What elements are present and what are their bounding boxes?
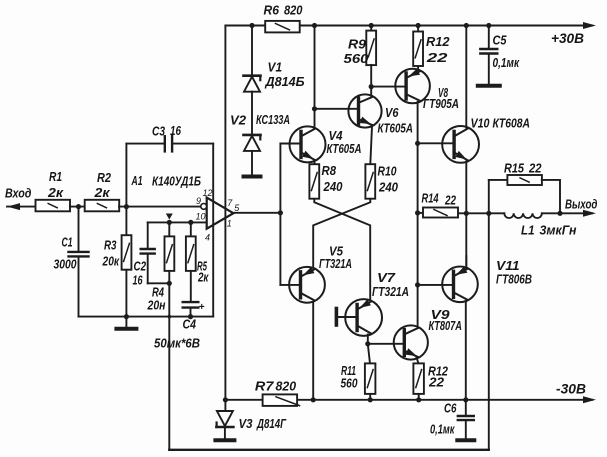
svg-text:22: 22 bbox=[444, 194, 456, 208]
svg-text:0,1мк: 0,1мк bbox=[493, 56, 520, 70]
wire output row bbox=[458, 212, 504, 214]
svg-text:R9: R9 bbox=[348, 38, 366, 52]
svg-text:КТ605А: КТ605А bbox=[327, 142, 362, 156]
svg-text:2к: 2к bbox=[197, 271, 209, 285]
ground symbol bbox=[125, 317, 127, 327]
svg-text:7: 7 bbox=[227, 198, 233, 208]
svg-text:V7: V7 bbox=[377, 271, 396, 285]
svg-text:560: 560 bbox=[341, 377, 358, 391]
wire V9 base bbox=[368, 343, 402, 345]
resistor R9 560 bbox=[370, 26, 372, 31]
wire V9 emitter to R12 bbox=[417, 358, 419, 364]
capacitor C6 0,1мк bbox=[465, 400, 467, 415]
wire V7 to R11 bbox=[368, 344, 370, 364]
inductor L1 3мкГн bbox=[504, 213, 542, 218]
zener V2 КС133А bbox=[244, 134, 261, 137]
svg-text:16: 16 bbox=[170, 124, 182, 138]
node C4 bottom bbox=[188, 314, 193, 319]
resistor R11 560 bbox=[365, 363, 376, 394]
svg-text:22: 22 bbox=[425, 51, 447, 65]
transistor V9 КТ807А npn bbox=[394, 325, 428, 359]
node R12 top bbox=[416, 23, 421, 28]
node V10 collector rail bbox=[464, 23, 469, 28]
wire output frame right column bbox=[488, 180, 490, 450]
svg-text:A1: A1 bbox=[131, 174, 143, 188]
resistor R12 22 (lower) bbox=[413, 363, 424, 394]
node V3 top bbox=[223, 397, 228, 402]
wire V10/V11 emitter junction bbox=[465, 213, 467, 268]
node R14 left bbox=[415, 210, 420, 215]
resistor R2 2к bbox=[85, 200, 120, 212]
Вход input arrow bbox=[7, 203, 20, 210]
wire V7 collector bbox=[367, 335, 369, 344]
svg-text:V6: V6 bbox=[385, 106, 399, 120]
transistor V11 ГТ806В pnp bbox=[442, 267, 478, 303]
svg-text:3мкГн: 3мкГн bbox=[540, 224, 577, 238]
svg-text:КТ605А: КТ605А bbox=[377, 122, 413, 136]
resistor R10 240 bbox=[365, 164, 375, 199]
wire V11 emitter up bbox=[465, 256, 467, 268]
wire V4 collector bbox=[314, 26, 316, 128]
+30V terminal arrow bbox=[583, 22, 596, 29]
node output column bbox=[278, 210, 283, 215]
svg-text:Вход: Вход bbox=[5, 186, 32, 201]
node C1 bbox=[76, 204, 81, 209]
node R11 bottom bbox=[368, 397, 373, 402]
svg-text:V4: V4 bbox=[329, 129, 343, 143]
svg-text:R2: R2 bbox=[97, 171, 111, 185]
svg-text:C3: C3 bbox=[152, 125, 165, 139]
svg-text:R8: R8 bbox=[322, 164, 337, 178]
svg-text:R12: R12 bbox=[426, 35, 450, 49]
zener V3 Д814Г bbox=[224, 400, 226, 411]
resistor R5 2к bbox=[190, 222, 192, 236]
svg-text:R10: R10 bbox=[378, 165, 397, 179]
node R4/C2 feedback bbox=[167, 281, 172, 286]
svg-text:820: 820 bbox=[284, 4, 303, 18]
svg-text:2к: 2к bbox=[47, 186, 64, 200]
transistor V8 ГТ905А pnp bbox=[395, 69, 430, 104]
transistor V10 КТ608А npn bbox=[442, 126, 479, 163]
resistor R4 20к bbox=[168, 222, 170, 236]
svg-text:5: 5 bbox=[234, 203, 240, 213]
transistor V6 КТ605А npn bbox=[348, 94, 381, 127]
svg-text:V11: V11 bbox=[496, 259, 520, 273]
svg-text:C4: C4 bbox=[182, 318, 196, 332]
svg-text:V2: V2 bbox=[230, 114, 246, 128]
resistor R8 240 bbox=[314, 161, 316, 165]
node R9/V6/V8 bbox=[369, 84, 374, 89]
svg-text:C5: C5 bbox=[493, 34, 508, 48]
wire R2 to op-amp input bbox=[119, 206, 201, 208]
wire -30V rail bbox=[225, 399, 592, 401]
svg-text:R1: R1 bbox=[49, 170, 62, 184]
wire V1-V2 bbox=[251, 92, 253, 135]
wire V4 base bbox=[280, 143, 301, 145]
svg-text:R15: R15 bbox=[504, 162, 525, 176]
svg-text:9: 9 bbox=[196, 196, 201, 206]
svg-text:+: + bbox=[199, 302, 205, 313]
svg-text:К140УД1Б: К140УД1Б bbox=[152, 175, 201, 189]
wire V11 collector down bbox=[465, 301, 467, 400]
node R9 top bbox=[369, 23, 374, 28]
node V6 base tap bbox=[312, 106, 317, 111]
wire R8 to V7 diagonal bbox=[314, 199, 370, 300]
svg-text:0,1мк: 0,1мк bbox=[430, 423, 455, 437]
wire V6 base bbox=[315, 108, 359, 110]
node output emitters bbox=[464, 211, 469, 216]
svg-text:16: 16 bbox=[133, 274, 144, 288]
svg-text:L1: L1 bbox=[521, 224, 535, 238]
svg-text:560: 560 bbox=[344, 52, 369, 66]
svg-text:3000: 3000 bbox=[54, 258, 77, 272]
op-amp A1 К140УД1Б bbox=[207, 198, 234, 229]
wire driver column bbox=[279, 144, 281, 285]
svg-text:ГТ321А: ГТ321А bbox=[372, 285, 409, 299]
junction arrow mark bbox=[166, 214, 173, 220]
node V5 collector bbox=[311, 397, 316, 402]
resistor R3 20к bbox=[125, 207, 127, 235]
svg-text:10: 10 bbox=[195, 212, 205, 222]
wire V2 to chassis bbox=[251, 151, 253, 176]
wire C3 left leg bbox=[125, 144, 127, 207]
wire V10 emitter bbox=[465, 162, 467, 214]
wire to V1 bbox=[251, 26, 253, 76]
resistor R12 22 (upper) bbox=[417, 26, 419, 31]
svg-text:ГТ806В: ГТ806В bbox=[496, 273, 532, 287]
svg-text:C2: C2 bbox=[134, 260, 147, 274]
svg-text:22: 22 bbox=[428, 376, 444, 390]
node R12 bottom bbox=[416, 397, 421, 402]
node frame column bbox=[486, 211, 491, 216]
node V4 collector rail bbox=[312, 23, 317, 28]
resistor R14 22 bbox=[418, 212, 423, 214]
capacitor C4 50мк*6В electrolytic bbox=[183, 301, 199, 303]
wire op-amp output bbox=[233, 212, 280, 214]
svg-text:50мк*6В: 50мк*6В bbox=[154, 337, 200, 351]
svg-text:240: 240 bbox=[378, 181, 398, 195]
chassis bar under V2 bbox=[244, 175, 261, 179]
node V11 collector / C6 bbox=[463, 397, 468, 402]
svg-text:R4: R4 bbox=[152, 286, 164, 300]
svg-text:Д814Г: Д814Г bbox=[256, 417, 287, 431]
-30V terminal arrow bbox=[583, 396, 596, 403]
wire V6 emitter bbox=[370, 126, 372, 164]
svg-text:22: 22 bbox=[528, 162, 541, 176]
zener V1 Д814Б bbox=[244, 74, 261, 77]
ground bus wire bbox=[79, 316, 214, 318]
node V7/V9 base bbox=[365, 341, 370, 346]
node V10 base tap bbox=[415, 141, 420, 146]
svg-text:20к: 20к bbox=[102, 255, 120, 269]
svg-text:Д814Б: Д814Б bbox=[264, 75, 304, 89]
transistor V7 ГТ321А pnp bbox=[345, 299, 382, 336]
wire left supply column bbox=[224, 26, 226, 400]
svg-text:+30В: +30В bbox=[551, 31, 584, 46]
feedback capacitor C3 16 loop bbox=[126, 143, 164, 145]
wire bottom frame bbox=[169, 449, 489, 451]
node R4 top bbox=[167, 220, 172, 225]
wire V11 base bbox=[418, 284, 454, 286]
svg-text:КТ608А: КТ608А bbox=[492, 117, 530, 131]
node R2/R3/C3 bbox=[124, 204, 129, 209]
resistor R1 2к bbox=[36, 200, 71, 212]
wire +30V top rail bbox=[225, 25, 265, 27]
svg-text:1: 1 bbox=[227, 219, 232, 229]
svg-text:820: 820 bbox=[276, 380, 297, 394]
svg-text:R14: R14 bbox=[422, 192, 439, 206]
wire V8 base bbox=[371, 86, 406, 88]
wire V5 base bbox=[280, 284, 300, 286]
capacitor C2 16 bbox=[147, 222, 149, 248]
capacitor C1 3000 bbox=[78, 207, 80, 252]
node R6/V1 bbox=[249, 23, 254, 28]
pin10 wire bbox=[148, 221, 207, 223]
resistor R15 22 bypass bbox=[489, 179, 508, 181]
wire V8 collector column bbox=[417, 102, 419, 326]
transistor V5 ГТ321А pnp bbox=[289, 267, 325, 303]
wire R1-R2 bbox=[70, 206, 85, 208]
wire C3 right leg / pin12-pin4 column bbox=[212, 144, 214, 317]
svg-text:V1: V1 bbox=[268, 61, 283, 75]
svg-text:V3: V3 bbox=[239, 417, 253, 431]
Выход output arrow bbox=[583, 210, 596, 217]
svg-text:ГТ905А: ГТ905А bbox=[423, 97, 459, 111]
resistor R6 820 bbox=[265, 21, 300, 33]
resistor R7 820 bbox=[263, 394, 298, 406]
capacitor C5 0,1мк bbox=[486, 23, 491, 28]
svg-text:V10: V10 bbox=[471, 117, 490, 131]
V7 base chassis bar bbox=[338, 316, 358, 318]
svg-text:R7: R7 bbox=[255, 380, 275, 394]
svg-text:Выход: Выход bbox=[565, 197, 598, 212]
wire V6 collector bbox=[370, 87, 372, 96]
wire R10 to V5 diagonal bbox=[313, 199, 370, 267]
feedback wire from output frame bbox=[168, 283, 170, 450]
svg-text:C6: C6 bbox=[444, 402, 457, 416]
svg-text:R6: R6 bbox=[263, 4, 280, 18]
svg-text:20н: 20н bbox=[147, 299, 166, 313]
svg-text:240: 240 bbox=[323, 180, 343, 194]
svg-text:ГТ321А: ГТ321А bbox=[319, 257, 352, 271]
wire V10 collector bbox=[465, 26, 467, 128]
svg-text:2к: 2к bbox=[93, 186, 110, 200]
svg-text:-30В: -30В bbox=[556, 382, 586, 397]
svg-text:12: 12 bbox=[202, 188, 212, 198]
svg-text:C1: C1 bbox=[62, 236, 73, 250]
capacitor C3 plates bbox=[164, 136, 166, 151]
node R5 top bbox=[188, 220, 193, 225]
svg-text:4: 4 bbox=[205, 233, 210, 243]
svg-text:КТ807А: КТ807А bbox=[428, 319, 462, 333]
node R3/ground bbox=[124, 314, 129, 319]
wire V5 collector down bbox=[312, 303, 314, 400]
wire V10 base bbox=[418, 142, 454, 144]
node V11 base tap bbox=[415, 282, 420, 287]
transistor V4 КТ605А npn bbox=[290, 126, 326, 162]
svg-text:КС133А: КС133А bbox=[256, 113, 290, 127]
svg-text:R3: R3 bbox=[104, 239, 117, 253]
